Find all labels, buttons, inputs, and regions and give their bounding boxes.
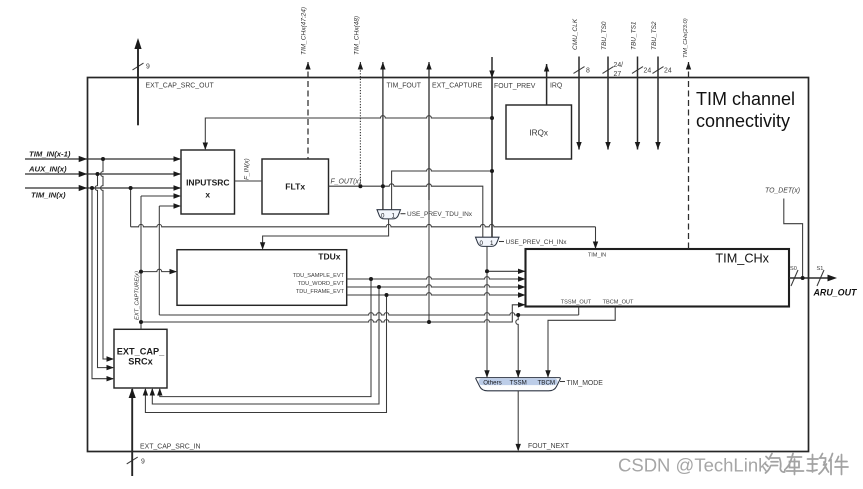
svg-text:TBU_TS0: TBU_TS0 — [601, 21, 608, 50]
svg-text:F_OUT(x): F_OUT(x) — [331, 179, 362, 186]
svg-text:USE_PREV_CH_INx: USE_PREV_CH_INx — [506, 239, 568, 246]
svg-text:24/: 24/ — [614, 62, 624, 69]
svg-text:TBCM: TBCM — [538, 379, 556, 386]
svg-text:TIM_FOUT: TIM_FOUT — [387, 83, 422, 90]
svg-text:9: 9 — [146, 64, 150, 71]
svg-text:TBCM_OUT: TBCM_OUT — [603, 300, 634, 306]
svg-text:TIM_IN(x-1): TIM_IN(x-1) — [29, 150, 71, 159]
svg-text:TDUx: TDUx — [318, 252, 340, 262]
svg-text:EXT_CAP_SRC_IN: EXT_CAP_SRC_IN — [140, 443, 201, 450]
svg-text:TDU_FRAME_EVT: TDU_FRAME_EVT — [296, 289, 345, 295]
svg-text:TIM_CHx(47:24): TIM_CHx(47:24) — [301, 7, 308, 55]
svg-text:Others: Others — [483, 379, 502, 386]
svg-text:TO_DET(x): TO_DET(x) — [765, 188, 800, 195]
svg-text:27: 27 — [614, 71, 622, 78]
svg-text:1: 1 — [391, 212, 395, 219]
svg-text:TIM_CHx(48): TIM_CHx(48) — [354, 16, 361, 55]
svg-text:S0: S0 — [790, 266, 797, 272]
svg-text:24: 24 — [664, 68, 672, 75]
svg-text:TBU_TS2: TBU_TS2 — [651, 21, 658, 50]
svg-text:CMU_CLK: CMU_CLK — [572, 18, 579, 50]
svg-text:TBU_TS1: TBU_TS1 — [631, 21, 638, 50]
svg-text:F_IN(x): F_IN(x) — [244, 158, 251, 180]
svg-text:0: 0 — [479, 240, 483, 247]
svg-text:EXT_CAP_SRC_OUT: EXT_CAP_SRC_OUT — [146, 83, 215, 90]
svg-text:TIM_CHx(23:0): TIM_CHx(23:0) — [683, 18, 689, 58]
svg-text:8: 8 — [586, 68, 590, 75]
svg-text:IRQ: IRQ — [550, 83, 563, 90]
svg-text:FOUT_PREV: FOUT_PREV — [494, 83, 536, 90]
svg-text:TIM_IN(x): TIM_IN(x) — [31, 191, 66, 200]
svg-text:IRQx: IRQx — [529, 129, 548, 138]
svg-text:CSDN @TechLink: CSDN @TechLink — [618, 455, 768, 476]
svg-text:FOUT_NEXT: FOUT_NEXT — [528, 443, 570, 450]
svg-text:24: 24 — [644, 68, 652, 75]
svg-text:TIM_IN: TIM_IN — [588, 253, 606, 259]
svg-text:EXT_CAPTURE: EXT_CAPTURE — [432, 83, 483, 90]
svg-text:1: 1 — [490, 240, 494, 247]
svg-text:TIM channel: TIM channel — [696, 89, 795, 109]
svg-text:SRCx: SRCx — [128, 357, 153, 367]
svg-text:TIM_CHx: TIM_CHx — [715, 252, 769, 266]
svg-text:TSSM: TSSM — [510, 379, 527, 386]
svg-text:9: 9 — [141, 459, 145, 466]
svg-text:EXT_CAP_: EXT_CAP_ — [117, 347, 165, 357]
svg-text:TDU_WORD_EVT: TDU_WORD_EVT — [298, 281, 345, 287]
svg-text:EXT_CAPTURE(x): EXT_CAPTURE(x) — [135, 271, 141, 320]
svg-text:x: x — [205, 190, 210, 200]
svg-text:INPUTSRC: INPUTSRC — [186, 178, 229, 188]
svg-text:TIM_MODE: TIM_MODE — [567, 380, 604, 387]
svg-text:USE_PREV_TDU_INx: USE_PREV_TDU_INx — [407, 211, 473, 218]
svg-text:0: 0 — [381, 212, 385, 219]
svg-text:TSSM_OUT: TSSM_OUT — [561, 300, 592, 306]
svg-text:S1: S1 — [817, 266, 824, 272]
svg-text:connectivity: connectivity — [696, 111, 790, 131]
svg-text:AUX_IN(x): AUX_IN(x) — [28, 165, 67, 174]
svg-text:FLTx: FLTx — [285, 182, 305, 192]
svg-text:TDU_SAMPLE_EVT: TDU_SAMPLE_EVT — [293, 273, 345, 279]
svg-text:ARU_OUT: ARU_OUT — [813, 288, 858, 298]
